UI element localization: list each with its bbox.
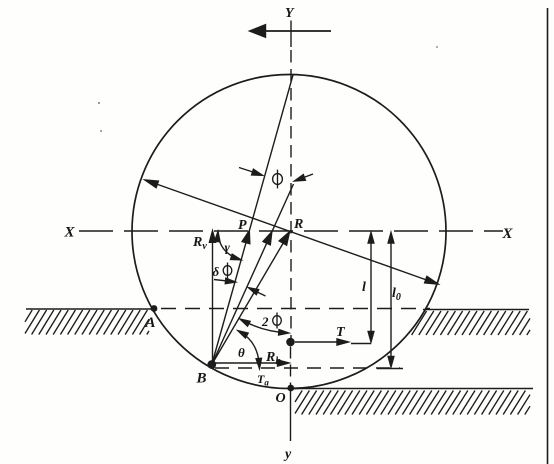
node B dot (207, 360, 216, 369)
force T line (295, 341, 342, 343)
dimension l0 line (390, 236, 392, 363)
svg-text:R: R (293, 217, 303, 232)
motion arrow (pointing left) (262, 30, 331, 32)
original surface dashed line (A level) (161, 308, 430, 310)
svg-text:γ: γ (225, 240, 231, 255)
page border line (right edge) (547, 8, 549, 464)
delta-phi left arrow (214, 280, 229, 282)
svg-text:Y: Y (285, 6, 295, 21)
svg-text:X: X (64, 225, 76, 241)
svg-text:T: T (336, 325, 346, 340)
Y axis vertical line (dashed through wheel) (290, 50, 292, 338)
force R line (B to R) (212, 232, 290, 365)
dimension l line (370, 236, 372, 338)
left ground hatch fill (24, 309, 26, 311)
force P arrowhead (242, 231, 250, 244)
svg-text:l: l (362, 280, 366, 295)
angle 2phi arc (241, 320, 287, 333)
angle phi label (273, 174, 283, 185)
load application point (dot on axis) (286, 338, 295, 347)
force R arrowhead (279, 232, 289, 245)
B level dashed line (215, 367, 400, 369)
slanted line right arrowhead (425, 276, 438, 284)
phi left arrow (239, 168, 256, 174)
wheel circle (132, 75, 446, 389)
dimension l0 bottom tick (377, 368, 403, 370)
svg-text:X: X (502, 226, 514, 242)
right ground hatch fill (405, 311, 530, 335)
point O (dot at bottom of wheel) (287, 385, 294, 392)
svg-text:θ: θ (238, 345, 245, 360)
angle theta arc (239, 332, 259, 365)
svg-text:δ: δ (213, 264, 220, 279)
force Rh line (213, 362, 284, 364)
node A dot (151, 305, 158, 312)
angle gamma arc (218, 233, 240, 260)
slanted line left arrowhead (145, 180, 158, 188)
y axis below ground (290, 390, 292, 441)
dimension l bottom tick (351, 343, 371, 345)
left ground hatch top line (26, 308, 152, 310)
axis segment dot-to-O (290, 347, 292, 386)
delta-phi right arrow (254, 291, 266, 297)
svg-text:B: B (196, 371, 207, 387)
svg-text:y: y (283, 447, 292, 462)
right ground hatch top line (423, 309, 529, 311)
force Rv line (212, 242, 214, 363)
line B to P extended to wheel top (212, 75, 293, 365)
bottom rut hatch top line (293, 388, 533, 390)
slanted diameter line through R (155, 184, 428, 281)
svg-text:A: A (145, 315, 156, 331)
svg-text:O: O (276, 391, 286, 406)
svg-text:2: 2 (261, 314, 269, 329)
middle arrowhead at X axis (263, 232, 272, 245)
scan specks (noise) (98, 102, 100, 104)
svg-text:P: P (238, 218, 247, 233)
bottom rut hatch fill (294, 390, 296, 392)
phi right arrow (301, 174, 313, 179)
X axis dashed line (79, 230, 503, 232)
construction line B through X axis (middle) (212, 184, 294, 365)
Y axis vertical line (solid top) (290, 21, 292, 48)
